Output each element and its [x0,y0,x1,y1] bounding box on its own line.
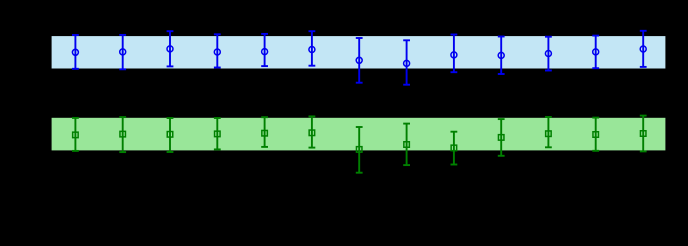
blue errorbar point 11 [545,37,552,71]
blue band [52,36,666,68]
green errorbar point 12 [592,118,599,151]
green errorbar point 13 [640,116,647,152]
blue errorbar point 2 [119,35,126,69]
blue errorbar point 6 [309,31,316,65]
green errorbar point 11 [545,117,552,147]
blue errorbar point 1 [72,35,79,69]
blue errorbar point 12 [592,36,599,69]
green errorbar point 6 [309,116,316,147]
green errorbar point 9 [451,132,458,165]
blue errorbar point 5 [261,34,268,66]
blue errorbar point 9 [451,35,458,73]
blue errorbar point 7 [356,38,363,83]
green errorbar point 7 [356,127,363,173]
green errorbar point 4 [214,118,221,149]
green errorbar point 3 [167,118,174,152]
blue errorbar point 8 [403,40,410,84]
green errorbar point 1 [72,118,79,151]
green errorbar point 5 [261,117,268,147]
blue errorbar point 4 [214,34,221,67]
green errorbar point 10 [498,119,505,156]
green errorbar point 2 [119,117,126,152]
blue errorbar point 3 [167,31,174,66]
green band [52,118,666,151]
blue errorbar point 13 [640,31,647,67]
green errorbar point 8 [403,124,410,166]
blue errorbar point 10 [498,37,505,75]
